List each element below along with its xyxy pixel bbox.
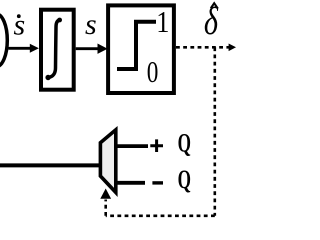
label delta-hat (estimated duty / output) <box>204 0 219 43</box>
label sdot (s-dot signal) <box>14 9 26 42</box>
label minus <box>152 181 163 184</box>
wire: sdot arrow from summing junction to integrator U1 <box>9 44 39 53</box>
wire: mux upper output (+) <box>115 144 148 148</box>
svg-text:s: s <box>14 9 26 42</box>
svg-text:0: 0 <box>147 55 159 89</box>
arrowhead into mux select input <box>100 189 111 199</box>
arrowhead at right edge <box>229 44 236 52</box>
svg-text:s: s <box>85 8 97 41</box>
integrator block U1 <box>41 10 74 90</box>
step (signum) symbol inside relay <box>117 22 156 69</box>
svg-text:Q: Q <box>178 128 191 158</box>
wire: input line into mux from left edge <box>0 163 100 167</box>
svg-text:Q: Q <box>178 164 191 194</box>
integral sign inside integrator <box>45 18 62 81</box>
label + <box>150 139 163 152</box>
relay / step block U2 <box>108 5 174 93</box>
dashed wire: short rise to mux select <box>104 200 107 216</box>
dashed wire: vertical feedback on right side <box>214 47 217 216</box>
svg-text:1: 1 <box>156 5 169 39</box>
wire: s arrow from integrator to relay U2 <box>76 44 108 54</box>
summing junction (cropped circle at left edge) <box>0 14 7 67</box>
dashed wire: relay output to the right edge <box>176 46 229 49</box>
dashed wire: bottom feedback run <box>106 215 215 218</box>
wire: mux lower output (-) <box>115 181 145 185</box>
mux / switch (trapezoid) <box>100 130 115 193</box>
